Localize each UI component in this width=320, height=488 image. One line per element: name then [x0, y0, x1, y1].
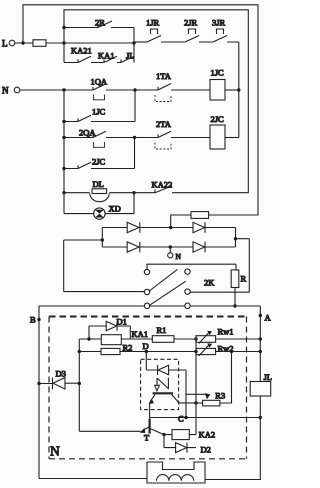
diode V4 bridge bottom-right [170, 246, 193, 248]
svg-text:L: L [2, 39, 8, 49]
node (196,339) [194, 337, 197, 340]
svg-text:XD: XD [109, 204, 121, 214]
wire bridge left feed down to 2K [64, 240, 145, 292]
wire rail B from top of 2R branch across to right bus down to KA22 [64, 10, 248, 193]
wire fuse to branch [46, 42, 64, 44]
node (260.3,339) [259, 337, 262, 340]
wire bus C right side [238, 42, 240, 138]
svg-text:B: B [30, 315, 36, 325]
node (64,168.5) [62, 167, 65, 170]
wire 2JC coil to bus C [225, 137, 239, 139]
svg-text:1JC: 1JC [92, 107, 106, 117]
diode V3 bridge bottom-left [102, 246, 127, 248]
terminal L [9, 40, 15, 46]
fuse on L line [33, 40, 46, 47]
node A [259, 314, 262, 317]
node (64,121.5) [62, 120, 65, 123]
svg-text:T: T [144, 433, 150, 443]
svg-text:D: D [143, 341, 149, 351]
node D [145, 350, 148, 353]
node bridge right [234, 237, 237, 240]
node (64,137.5) [62, 136, 65, 139]
wire right branch vertical x134 [133, 28, 135, 63]
node L junction [21, 41, 24, 44]
svg-text:D2: D2 [201, 444, 211, 454]
svg-text:2JC: 2JC [92, 157, 106, 167]
svg-text:2QA: 2QA [79, 128, 96, 138]
terminal N [14, 87, 20, 93]
transistor V inside box [153, 392, 173, 394]
node (89,339) [87, 337, 90, 340]
wire box diode output drop [185, 370, 187, 418]
node (135,90) [133, 88, 136, 91]
node (79.3,383.5) [78, 382, 81, 385]
svg-text:1JC: 1JC [211, 68, 225, 78]
svg-text:2TA: 2TA [156, 119, 172, 129]
diode inside box [157, 365, 159, 375]
svg-text:D1: D1 [117, 316, 127, 326]
svg-text:JL: JL [264, 372, 273, 382]
node (231.5,351.5) [230, 350, 233, 353]
wire KA1 block left drop [78, 339, 80, 431]
node (235,306) [233, 304, 236, 307]
node (64,192.7) [62, 191, 65, 194]
svg-text:R1: R1 [157, 325, 167, 335]
svg-text:1QA: 1QA [91, 77, 108, 87]
wire L row to thermal contacts [134, 41, 147, 43]
node C [184, 416, 187, 419]
wire R bottom lead [234, 288, 236, 307]
wire bridge left vertical [101, 228, 103, 248]
node (79.3,351.5) [78, 350, 81, 353]
svg-text:1JR: 1JR [146, 18, 160, 28]
wire JL bottom to inductor [205, 418, 260, 480]
wire R3 network vertical x196 [195, 339, 197, 435]
wire L row through branch [64, 42, 134, 44]
resistor R [231, 270, 239, 288]
wire N lead [20, 89, 93, 91]
svg-text:D3: D3 [56, 369, 66, 379]
wire 2K top-left to resistor R [147, 264, 236, 270]
node (64,43) [62, 41, 65, 44]
node (134.5,137.5) [133, 136, 136, 139]
node (196,403) [194, 401, 197, 404]
svg-text:KA1: KA1 [132, 329, 149, 339]
wire inductor left lead to B bus [39, 478, 147, 480]
wire left bus B side [38, 306, 40, 479]
svg-text:Rw1: Rw1 [218, 326, 234, 336]
node (64,27.5) [62, 26, 65, 29]
switch 2K blades [149, 269, 186, 305]
svg-text:1TA: 1TA [156, 71, 172, 81]
breakover arrow symbol [157, 378, 168, 390]
dashed enclosure border [49, 316, 247, 318]
node (170.3,247) [169, 245, 172, 248]
svg-text:C: C [178, 414, 184, 424]
svg-text:R3: R3 [215, 390, 225, 400]
svg-text:N: N [50, 444, 60, 459]
wire L lead [15, 42, 33, 44]
svg-text:KA2: KA2 [199, 429, 216, 439]
node (238.8,90) [237, 88, 240, 91]
node bridge left [101, 238, 104, 241]
svg-text:DL: DL [93, 179, 104, 189]
fuse on rectifier feed [171, 215, 191, 228]
wire node D drop into oscillator box [146, 352, 157, 371]
svg-text:2JC: 2JC [211, 114, 225, 124]
node (134,43) [132, 41, 135, 44]
terminal N mid [169, 247, 171, 253]
svg-text:3JR: 3JR [212, 18, 226, 28]
node (39,383.5) [37, 382, 40, 385]
svg-text:N: N [176, 252, 182, 261]
svg-text:KA22: KA22 [152, 180, 173, 190]
wire bottom supply rail [39, 305, 260, 307]
node (164,434.6) [162, 433, 165, 436]
node (64,90) [62, 88, 65, 91]
diode V1 bridge top-left [102, 227, 127, 229]
wire top rail A from L up and across to right bus down to fuse row [23, 5, 258, 215]
oscillator dashed box [141, 359, 179, 409]
wire 1JC coil to bus C [225, 89, 239, 91]
node (260.3,351.5) [259, 350, 262, 353]
svg-text:2K: 2K [204, 278, 215, 288]
wire bridge right to 2K middle right [190, 239, 249, 293]
wire left bus x64 N section [63, 90, 65, 214]
svg-text:N: N [2, 86, 9, 96]
svg-text:R: R [241, 274, 247, 284]
wire right bus A side [259, 306, 261, 382]
node (260.3,417.5) [259, 416, 262, 419]
wiper arrow R3 [186, 393, 207, 395]
svg-text:2JR: 2JR [184, 18, 198, 28]
wire Rw2 right drop to R3 [220, 352, 232, 404]
svg-text:KA21: KA21 [71, 46, 92, 56]
node (134,192.7) [132, 191, 135, 194]
inductor with core [147, 462, 205, 483]
node (170.7,227.5) [169, 226, 172, 229]
diode V2 bridge top-right [171, 227, 193, 229]
node B [37, 318, 40, 321]
node (196,351.5) [194, 350, 197, 353]
svg-text:A: A [265, 313, 272, 323]
wire node C line [150, 417, 261, 419]
